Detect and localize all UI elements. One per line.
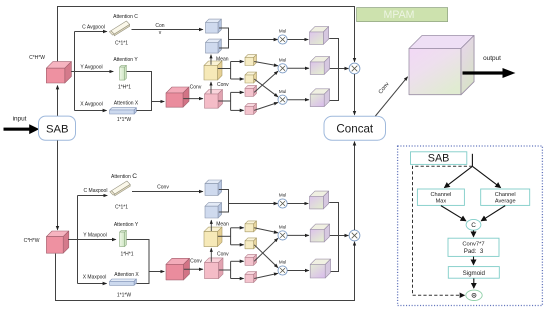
wire X Avgpool row — [75, 110, 107, 112]
wire residual top path — [58, 7, 355, 62]
Mul junction 2 top — [278, 58, 287, 73]
svg-text:Attention X: Attention X — [114, 272, 139, 278]
wire fork pink arrow1 bottom — [231, 260, 244, 262]
max pooled cube 2 bottom — [205, 203, 222, 218]
wire conv cube fork stub top — [218, 100, 230, 102]
svg-text:Mul: Mul — [279, 225, 286, 230]
wire fork yellow arrow1 bottom — [231, 227, 244, 229]
max pooled cube 1 bottom — [205, 180, 222, 195]
fusion cube top — [166, 87, 189, 107]
attention C bar top — [109, 21, 129, 36]
wire blue bracket bottom — [219, 190, 229, 213]
mean cube top — [204, 61, 222, 80]
wire attnX to merge bottom — [137, 272, 150, 284]
Sigmoid box — [448, 267, 499, 279]
wire Mul3 to result3 top — [287, 99, 308, 101]
wire merge to fusion cube top — [152, 101, 165, 103]
wire C to Conv7 — [473, 230, 475, 236]
svg-text:Pad: 3: Pad: 3 — [464, 248, 484, 255]
wire SAB detail stub — [471, 154, 473, 167]
wire C Avgpool row — [75, 31, 107, 33]
wire Mul2 to result2 bottom — [287, 234, 308, 236]
wire conv attnC to blue cube bottom — [132, 191, 203, 193]
wire distributor down top — [74, 72, 76, 111]
svg-text:SAB: SAB — [428, 153, 450, 165]
wire Mul1 to result1 top — [287, 39, 308, 41]
wire collector mid bottom — [330, 235, 339, 237]
small yellow cube 1 bottom — [245, 221, 257, 232]
wire skip dashed — [413, 166, 473, 295]
wire bracket to Mul1 bottom — [229, 203, 278, 205]
wire mix to Concat bottom — [354, 142, 356, 230]
wire merge to fusion cube bottom — [149, 271, 164, 273]
svg-text:Conv: Conv — [190, 85, 202, 91]
avg pooled cube 2 top — [206, 39, 222, 53]
svg-text:Attention Y: Attention Y — [113, 57, 138, 63]
wire mean cube to blue cube2 bottom — [210, 220, 212, 231]
attention Y bar top — [120, 65, 127, 80]
wire cube to distributor Y row bottom — [68, 239, 116, 241]
svg-text:C*H*W: C*H*W — [24, 238, 40, 244]
svg-text:1*H*1: 1*H*1 — [120, 252, 133, 258]
wire fork pink arrow2 top — [231, 109, 244, 111]
wire to Channel Average — [472, 166, 500, 187]
svg-text:Conv: Conv — [217, 251, 229, 257]
result cube 2 bottom — [310, 224, 329, 242]
svg-text:C*H*W: C*H*W — [29, 55, 45, 61]
wire to Channel Max — [445, 166, 473, 187]
wire fork yellow top — [230, 62, 232, 80]
svg-text:C*1*1: C*1*1 — [115, 204, 128, 210]
Channel Max box — [417, 189, 464, 205]
result cube 1 bottom — [310, 191, 329, 209]
wire fork yellow bottom — [230, 228, 232, 245]
conv cube bottom — [205, 258, 224, 279]
Mul junction 3 bottom — [278, 260, 287, 275]
wire blue bracket top — [219, 28, 229, 48]
mix circle top — [349, 63, 360, 74]
wire Mul3 to result3 bottom — [287, 270, 308, 272]
Mul junction 1 top — [278, 29, 287, 44]
wire Conv7 to Sigmoid — [473, 257, 475, 265]
wire attnY to merge top — [127, 72, 152, 102]
fusion cube bottom — [166, 258, 190, 280]
wire attnX to merge top — [137, 102, 152, 111]
small yellow cube 2 top — [245, 72, 257, 83]
result cube 2 top — [310, 57, 329, 75]
input arrow — [4, 124, 40, 134]
mean cube bottom — [204, 227, 222, 247]
svg-text:Max: Max — [436, 199, 447, 205]
output arrow — [463, 68, 516, 78]
wire small pink1 to Mul2 bottom — [254, 238, 278, 261]
wire small pink2 to Mul3 bottom — [254, 273, 278, 278]
wire conv cube to mean cube bottom — [210, 248, 212, 261]
wire SAB to bottom cube — [57, 141, 59, 230]
wire conv attnC to blue cube top — [132, 29, 203, 31]
svg-text:Attention C: Attention C — [113, 14, 138, 20]
svg-text:SAB: SAB — [46, 123, 69, 135]
mix circle bottom — [349, 230, 360, 241]
wire bracket to Mul1 top — [229, 39, 278, 41]
wire X Maxpool row — [78, 283, 107, 285]
svg-text:C*1*1: C*1*1 — [115, 41, 128, 47]
svg-text:Sigmoid: Sigmoid — [463, 270, 486, 277]
feature cube C*H*W top — [46, 62, 71, 83]
wire Mul2 to result2 top — [287, 67, 308, 69]
feature cube C*H*W bottom — [46, 231, 68, 253]
svg-text:Mean: Mean — [216, 221, 229, 227]
wire small yellow1 to Mul2 bottom — [254, 228, 278, 233]
wire distributor vertical top — [74, 32, 76, 72]
svg-text:Concat: Concat — [336, 122, 374, 135]
attention X bar top — [110, 108, 137, 114]
small pink cube 1 bottom — [245, 254, 257, 265]
svg-text:Mul: Mul — [279, 193, 286, 198]
svg-text:Attention C: Attention C — [111, 173, 137, 180]
wire fork yellow arrow2 bottom — [231, 244, 244, 246]
Mul junction 3 top — [278, 89, 287, 104]
svg-text:Mul: Mul — [279, 89, 286, 94]
conv cube top — [205, 90, 223, 109]
attention C bar bottom — [110, 181, 130, 196]
wire conv cube fork stub bottom — [219, 269, 231, 271]
wire Channel Average to C — [481, 206, 505, 221]
wire collector to mix top — [339, 68, 349, 70]
product ellipse — [466, 290, 482, 300]
output cube right tint — [461, 36, 474, 95]
Mul junction 1 bottom — [278, 193, 287, 208]
svg-text:output: output — [483, 55, 501, 62]
svg-text:C: C — [471, 222, 476, 229]
svg-text:1*H*1: 1*H*1 — [118, 84, 131, 90]
svg-text:Mean: Mean — [216, 56, 229, 62]
attention Y bar bottom — [120, 230, 127, 246]
svg-text:Con: Con — [155, 23, 164, 29]
small yellow cube 1 top — [245, 55, 257, 66]
wire cube to distributor Y row top — [71, 71, 113, 73]
wire collector mid top — [330, 68, 339, 70]
concat ellipse C — [466, 219, 481, 230]
Channel Average box — [481, 189, 530, 205]
SAB detail container — [398, 146, 543, 306]
svg-text:Average: Average — [495, 199, 516, 205]
Mul junction 2 bottom — [278, 225, 287, 240]
wire Concat to output cube — [375, 77, 407, 116]
wire distributor down bottom — [77, 240, 79, 284]
svg-text:Channel: Channel — [430, 192, 451, 198]
small yellow cube 2 bottom — [245, 238, 257, 249]
wire collector top — [329, 39, 338, 101]
wire small yellow2 to Mul3 bottom — [254, 245, 278, 268]
wire mean cube fork stub top — [218, 68, 231, 70]
wire mean cube to blue cube2 top — [210, 55, 212, 65]
wire mix to Concat top — [354, 74, 356, 115]
wire fork yellow arrow2 top — [231, 78, 244, 80]
wire fork pink bottom — [230, 261, 232, 278]
output cube — [409, 36, 474, 95]
svg-text:Conv7*7: Conv7*7 — [462, 242, 484, 248]
wire fusion to conv cube bottom — [184, 268, 203, 270]
wire residual bottom path — [56, 242, 355, 301]
svg-text:Mul: Mul — [279, 29, 286, 34]
svg-text:1*1*W: 1*1*W — [117, 293, 131, 299]
svg-text:Conv: Conv — [190, 258, 202, 264]
attention X bar bottom — [110, 279, 137, 285]
wire C Maxpool row — [78, 195, 108, 197]
wire fusion to conv cube top — [183, 98, 203, 100]
wire conv cube to mean cube top — [210, 82, 212, 94]
svg-text:Y Avgpool: Y Avgpool — [80, 64, 102, 70]
wire small pink1 to Mul2 top — [254, 71, 278, 92]
wire small pink2 to Mul3 top — [254, 103, 278, 111]
result cube 3 top — [310, 89, 329, 107]
wire distributor vertical bottom — [77, 196, 79, 240]
wire fork pink arrow2 bottom — [231, 278, 244, 280]
wire mean cube fork stub bottom — [218, 235, 231, 237]
svg-text:C Avgpool: C Avgpool — [82, 24, 105, 30]
avg pooled cube 1 top — [206, 19, 222, 33]
wire fork pink arrow1 top — [231, 91, 244, 93]
svg-text:1*1*W: 1*1*W — [117, 117, 131, 123]
svg-text:Mul: Mul — [279, 58, 286, 63]
wire attnY to merge bottom — [127, 240, 149, 272]
wire fork yellow arrow1 top — [231, 61, 244, 63]
wire fork pink top — [230, 92, 232, 110]
result cube 1 top — [310, 27, 329, 45]
MPAM banner — [357, 8, 448, 22]
result cube 3 bottom — [310, 259, 330, 278]
svg-text:Mul: Mul — [279, 260, 286, 265]
Conv7x7 box — [448, 238, 499, 256]
svg-text:Conv: Conv — [157, 184, 169, 190]
wire collector bottom — [329, 203, 338, 272]
Concat block — [324, 116, 386, 140]
wire Mul1 to result1 bottom — [287, 203, 308, 205]
SAB detail title box — [411, 152, 467, 165]
small pink cube 2 top — [245, 103, 257, 114]
svg-text:Channel: Channel — [495, 192, 516, 198]
svg-text:X Avgpool: X Avgpool — [80, 102, 102, 108]
svg-text:X Maxpool: X Maxpool — [83, 275, 107, 281]
svg-text:Y Maxpool: Y Maxpool — [83, 233, 107, 239]
SAB block — [39, 116, 76, 140]
small pink cube 2 bottom — [245, 272, 257, 283]
svg-text:Attention X: Attention X — [114, 101, 139, 107]
wire Sigmoid to product — [473, 278, 475, 288]
svg-text:C Maxpool: C Maxpool — [84, 188, 108, 194]
svg-text:Attention Y: Attention Y — [114, 222, 139, 228]
wire small yellow2 to Mul3 top — [254, 79, 278, 97]
wire Channel Max to C — [441, 206, 466, 221]
small pink cube 1 top — [245, 85, 257, 96]
svg-text:MPAM: MPAM — [384, 9, 415, 21]
svg-text:Conv: Conv — [217, 82, 229, 88]
wire collector to mix bottom — [339, 235, 349, 237]
wire SAB to top cube — [57, 86, 59, 116]
svg-text:input: input — [13, 115, 27, 122]
wire small yellow1 to Mul2 top — [254, 62, 278, 66]
